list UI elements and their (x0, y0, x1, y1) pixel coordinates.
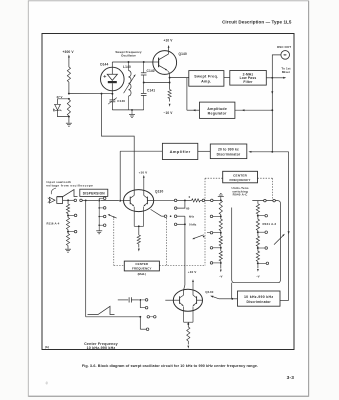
wire (111, 62, 113, 67)
switch contacts grid selector (98, 201, 100, 227)
supply arrow ladder B (257, 265, 259, 268)
svg-text:Q140: Q140 (205, 290, 213, 294)
wire Q130 cathode (133, 207, 135, 227)
svg-text:Q140: Q140 (179, 52, 187, 56)
wire to Q130 grid (120, 200, 123, 202)
wire branch (139, 317, 141, 329)
block CENTER FREQUENCY Mult (124, 261, 159, 271)
wire (266, 77, 272, 79)
switch contacts top (264, 199, 267, 202)
wire feedback to bottom discriminator (288, 152, 290, 301)
svg-text:Filter: Filter (243, 80, 253, 84)
svg-text:voltage from oscilloscope: voltage from oscilloscope (46, 183, 93, 187)
switch contacts row 0 (174, 199, 177, 202)
svg-text:−V: −V (256, 274, 260, 278)
+10 V supply arrow Q145 (192, 281, 194, 290)
tube Q130 (124, 190, 154, 212)
varactor diode D144 (101, 67, 125, 91)
switch contacts kHz row (164, 215, 167, 218)
svg-text:10 kHz-990 kHz: 10 kHz-990 kHz (87, 346, 116, 350)
svg-text:C140: C140 (117, 99, 125, 103)
wire selector column down (184, 216, 185, 289)
wire top rail (112, 61, 153, 63)
wire (111, 91, 113, 94)
wire Q145 cathode (183, 307, 185, 323)
svg-text:0 kHz: 0 kHz (189, 223, 197, 227)
svg-text:FREQUENCY: FREQUENCY (132, 266, 152, 270)
block 20 to 990 kc Discriminator (210, 144, 247, 159)
wire row (86, 316, 141, 318)
resistor R146 (187, 324, 189, 327)
ground (131, 110, 133, 114)
svg-text:+10 V: +10 V (188, 270, 198, 274)
+10 V supply arrow (168, 47, 170, 51)
svg-text:+10 V: +10 V (139, 170, 149, 174)
svg-text:kHz: kHz (189, 215, 195, 219)
svg-text:60: 60 (186, 206, 190, 210)
resistor R141 (67, 67, 70, 82)
dashed linkage right (258, 177, 273, 179)
svg-text:37 V: 37 V (57, 95, 63, 99)
svg-text:(b): (b) (45, 345, 49, 349)
svg-text:Amplifier: Amplifier (170, 149, 191, 154)
svg-text:FREQUENCY: FREQUENCY (229, 178, 251, 182)
wire (100, 200, 119, 202)
connector OSC OUT (272, 55, 281, 78)
wire long vertical (85, 200, 87, 316)
wire node to oscillator (69, 93, 113, 95)
svg-text:Mixer: Mixer (282, 70, 291, 74)
svg-text:R116 A-4: R116 A-4 (47, 221, 60, 225)
input connector arrow (49, 197, 55, 203)
svg-text:Amp.: Amp. (201, 79, 211, 83)
wire branch 60 (177, 200, 185, 208)
svg-text:10 kHz-990 kHz: 10 kHz-990 kHz (244, 295, 274, 299)
schematic border frame (42, 34, 294, 350)
block Swept Freq Amp (189, 71, 224, 87)
svg-text:L140: L140 (123, 65, 131, 69)
svg-text:−V: −V (219, 274, 223, 278)
ground (65, 248, 71, 250)
sawtooth waveform symbol (57, 190, 78, 197)
wire Q130 lower lead (151, 209, 162, 216)
coupling capacitor C137 (118, 299, 128, 301)
block 2-MHz Low Pass Filter (230, 71, 266, 86)
svg-text:20 to 990 kc: 20 to 990 kc (218, 148, 239, 152)
supply arrow down (187, 341, 189, 345)
resistor R142 (67, 100, 70, 117)
svg-text:D144: D144 (100, 63, 108, 67)
-10 V supply arrow (169, 99, 171, 102)
switch contacts 0 kHz row (174, 223, 177, 226)
svg-text:−10 V: −10 V (164, 111, 174, 115)
dashed linkage center frequency (204, 178, 206, 265)
wire main feedback line down (271, 78, 273, 152)
svg-text:Fig. 3-6. Block diagram of swe: Fig. 3-6. Block diagram of swept oscilla… (82, 364, 258, 368)
rounded enclosure R041 (232, 201, 281, 283)
wire Q130 plate to contacts row (154, 199, 175, 201)
arrow to 1st mixer (272, 77, 284, 79)
dashed linkage kHz contacts to multiplier (166, 218, 168, 266)
ground (66, 122, 72, 124)
svg-text:C140: C140 (147, 69, 155, 73)
switch contacts (147, 316, 150, 319)
wire regulator output (187, 109, 200, 111)
block CENTER FREQUENCY (223, 171, 258, 183)
supply arrow down (138, 244, 140, 248)
block Amplitude Regulator (200, 102, 235, 118)
wire to enclosure (231, 283, 233, 299)
svg-text:+10 V: +10 V (164, 39, 174, 43)
svg-text:Discriminator: Discriminator (217, 152, 241, 156)
switch wiper dispersion (109, 215, 117, 218)
svg-text:C141: C141 (147, 88, 155, 92)
wire (68, 82, 70, 94)
svg-text:Swept Freq.: Swept Freq. (194, 75, 218, 79)
svg-text:R041 A-2: R041 A-2 (263, 222, 277, 226)
wire (224, 77, 230, 79)
svg-text:(Mult.): (Mult.) (138, 272, 146, 276)
ground (98, 226, 100, 231)
block Amplifier (162, 143, 197, 159)
wire Q130 grid node down (119, 151, 121, 201)
resistor ladder R041 A-2 (257, 201, 259, 204)
transistor Q140 (153, 51, 177, 75)
switch contacts (141, 299, 145, 301)
switch wiper B (274, 235, 283, 244)
wire emitter rail (144, 82, 170, 84)
tube Q145 (173, 289, 202, 311)
resistor R143 (169, 83, 171, 90)
wire emitter to node (168, 74, 170, 78)
wire to amplitude regulator (235, 109, 272, 111)
wire oscillator to Q130 plate (102, 94, 135, 190)
supply arrow ladder A (220, 265, 222, 269)
wire discriminator feed (250, 151, 288, 153)
wire to Q145 grid (165, 299, 173, 301)
resistor ladder R040 A-C (219, 200, 222, 214)
sawtooth waveform symbol 2 (88, 306, 115, 314)
resistor R134 (192, 199, 201, 202)
wire (68, 117, 70, 123)
svg-text:OSC OUT: OSC OUT (277, 45, 291, 49)
+10 V supply arrow Q130 (143, 177, 145, 190)
wire input rail (63, 199, 75, 201)
dashed linkage to multiplier (113, 219, 115, 266)
resistor R136 (137, 235, 140, 244)
ground above ladder (218, 196, 224, 198)
wire discriminator output (232, 298, 237, 300)
wire bottom rail (112, 109, 143, 111)
wire grid line to amplifier (120, 150, 162, 152)
wire to swept freq amp (170, 77, 189, 79)
svg-text:DISPERSION: DISPERSION (83, 192, 106, 196)
svg-text:R040 A-C: R040 A-C (233, 193, 248, 197)
switch contacts input (74, 199, 77, 202)
block 10 kHz-990 kHz Discriminator (238, 291, 281, 306)
svg-text:Q130: Q130 (155, 189, 163, 193)
switch contacts (200, 199, 202, 201)
switch wiper A2 (193, 235, 204, 239)
svg-text:3-3: 3-3 (287, 375, 295, 381)
wire (198, 150, 211, 152)
svg-text:Circuit Description — Type 1L5: Circuit Description — Type 1L5 (222, 20, 292, 25)
svg-text:Discriminator: Discriminator (246, 300, 271, 304)
svg-text:Oscillator: Oscillator (121, 54, 137, 58)
block DISPERSION switch label (80, 189, 108, 196)
dashed linkage left (205, 177, 223, 179)
svg-text:Amplitude: Amplitude (207, 107, 227, 111)
svg-text:+300 V: +300 V (63, 50, 75, 54)
input connector square (57, 197, 63, 204)
svg-text:Regulator: Regulator (208, 112, 227, 116)
